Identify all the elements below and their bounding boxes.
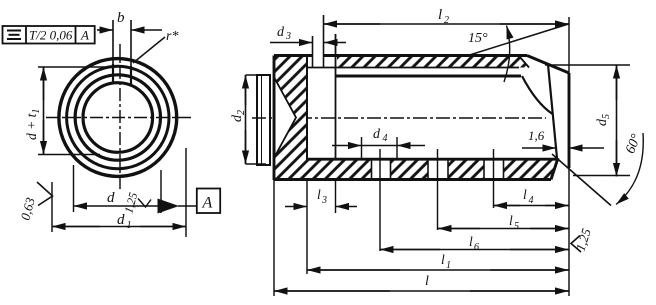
keyway slot bottom line xyxy=(307,67,519,69)
top edge left segment xyxy=(274,54,313,57)
svg-text:l: l xyxy=(317,187,321,202)
svg-text:1: 1 xyxy=(127,220,132,231)
keyway slot right edge + b extension xyxy=(130,20,132,66)
svg-text:1: 1 xyxy=(446,260,451,271)
dimension d xyxy=(74,165,162,213)
svg-text:l: l xyxy=(438,7,442,23)
svg-text:d: d xyxy=(373,127,381,142)
notch3 extension xyxy=(493,187,495,208)
svg-text:d: d xyxy=(107,190,115,206)
horizontal center line xyxy=(46,117,194,119)
svg-text:3: 3 xyxy=(321,195,327,206)
d3 hole right edge / l2 extension xyxy=(323,15,325,68)
groove/notch 3a in bottom wall xyxy=(484,161,504,180)
svg-text:d: d xyxy=(117,212,125,228)
tolerance frame xyxy=(3,26,95,44)
dimension l1 xyxy=(307,269,569,271)
svg-text:T/2 0,06: T/2 0,06 xyxy=(29,28,73,43)
svg-text:A: A xyxy=(80,28,89,43)
svg-text:l: l xyxy=(509,213,513,228)
keyway band end slant xyxy=(519,56,529,68)
bore top line xyxy=(335,75,521,78)
dimension l4 xyxy=(494,205,569,207)
svg-text:d: d xyxy=(277,25,285,40)
groove right edge xyxy=(335,34,337,158)
groove/notch 2 in bottom wall xyxy=(428,161,448,180)
bore circle xyxy=(83,83,153,153)
svg-text:b: b xyxy=(117,10,125,26)
bottom extension lines xyxy=(274,180,494,296)
outer chamfer 15deg xyxy=(527,56,569,74)
dimension d1 xyxy=(52,148,186,237)
svg-text:3: 3 xyxy=(285,31,291,42)
datum A box xyxy=(197,189,220,214)
vertical center line xyxy=(119,44,121,192)
notch2 extension xyxy=(437,187,439,230)
r* leader xyxy=(133,37,165,63)
end face xyxy=(568,73,571,168)
left face xyxy=(273,56,276,181)
svg-text:1,6: 1,6 xyxy=(528,128,545,143)
circle d xyxy=(75,75,160,160)
symmetry symbol xyxy=(7,30,21,32)
notch1 extension xyxy=(379,187,381,251)
15deg ray xyxy=(468,24,569,56)
groove/notch 1 in bottom wall xyxy=(372,161,391,180)
svg-text:r*: r* xyxy=(166,29,178,44)
bottom wall hatch band xyxy=(274,161,557,180)
datum A triangle xyxy=(158,199,180,214)
roughness 0,63 xyxy=(37,182,53,206)
roughness 1,25 right xyxy=(571,236,581,253)
notch 3 edges xyxy=(483,160,485,180)
dimension d4 xyxy=(332,137,425,158)
dimension b xyxy=(97,29,162,31)
left block hatch xyxy=(274,56,307,181)
dimension l6 xyxy=(380,249,569,251)
dimension d3 xyxy=(270,42,346,44)
section center line xyxy=(252,117,546,119)
dimension l5 xyxy=(438,228,569,230)
dimension 1,6 xyxy=(522,147,604,149)
bottom edge xyxy=(274,178,551,181)
d3 hole left edge xyxy=(312,36,314,68)
keyway slot left edge + b extension xyxy=(112,20,114,64)
notch 2 hole centerline xyxy=(437,149,439,187)
top edge right segment xyxy=(324,54,527,57)
left plate/boss xyxy=(257,75,270,165)
svg-text:l: l xyxy=(523,187,527,202)
svg-text:6: 6 xyxy=(474,242,479,253)
notch 1 hole centerline xyxy=(379,149,381,187)
inner cone curve xyxy=(522,76,553,114)
15deg arc xyxy=(504,26,510,83)
dimension d5 xyxy=(545,65,630,177)
dimension l2 xyxy=(324,23,569,25)
svg-text:2: 2 xyxy=(444,15,449,26)
dimension l3 xyxy=(285,206,357,208)
block edge extension xyxy=(306,181,308,274)
notch 2 edges xyxy=(427,160,429,180)
svg-text:4: 4 xyxy=(529,195,534,206)
svg-text:l: l xyxy=(469,234,473,249)
svg-text:l: l xyxy=(441,252,445,267)
bottom chamfer xyxy=(551,158,558,180)
svg-text:l: l xyxy=(425,274,429,289)
cone recess in left face xyxy=(275,78,297,157)
svg-text:4: 4 xyxy=(383,133,388,144)
dimension d+t1 xyxy=(38,67,108,155)
end face extensions xyxy=(568,17,570,73)
left face extension xyxy=(273,180,275,296)
chamfer circle (keyway bottom dia) xyxy=(67,66,169,168)
60deg cone line xyxy=(552,154,611,206)
roughness 1,25 on d xyxy=(138,199,151,208)
svg-text:5: 5 xyxy=(514,221,519,232)
dimension d2 xyxy=(246,75,267,164)
outer circle d1 xyxy=(59,59,177,177)
inner cone edge xyxy=(548,65,557,159)
svg-text:A: A xyxy=(202,195,213,212)
top wall hatch band xyxy=(337,56,529,68)
bore bottom line xyxy=(307,158,556,161)
groove left edge / l1-l3 extension xyxy=(306,56,308,160)
60deg arc xyxy=(616,133,643,205)
groove right extension xyxy=(335,181,337,213)
dimension l xyxy=(274,290,569,292)
notch 1 edges xyxy=(371,160,373,180)
notch 3 hole centerline xyxy=(493,149,495,187)
svg-text:15°: 15° xyxy=(468,31,488,46)
